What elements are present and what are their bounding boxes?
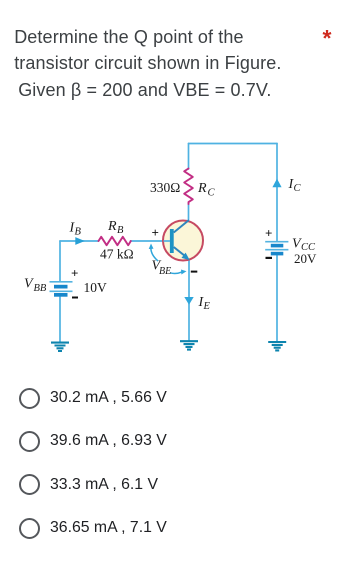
- svg-text:E: E: [203, 301, 211, 312]
- svg-text:R: R: [107, 219, 117, 234]
- transistor emitter line: [174, 247, 185, 256]
- svg-text:330Ω: 330Ω: [150, 180, 180, 195]
- wire emitter down: [188, 261, 190, 342]
- svg-text:10V: 10V: [84, 280, 108, 295]
- minus sign VBB: [72, 297, 78, 299]
- transistor collector line: [174, 220, 189, 233]
- svg-text:B: B: [75, 227, 82, 238]
- minus sign at emitter: [191, 271, 198, 273]
- VBE pointer arrow to base: [151, 247, 158, 262]
- transistor Q1 circle: [163, 221, 203, 261]
- svg-text:C: C: [294, 183, 302, 194]
- label IC: [288, 177, 302, 194]
- arrow IB: [75, 237, 85, 245]
- svg-text:C: C: [208, 188, 216, 199]
- label VBE: [152, 259, 172, 278]
- resistor RC zigzag: [184, 169, 193, 205]
- svg-text:+: +: [265, 226, 272, 241]
- svg-text:+: +: [71, 266, 78, 281]
- svg-text:BB: BB: [34, 283, 47, 294]
- svg-text:B: B: [117, 225, 124, 236]
- resistor RB zigzag: [99, 237, 131, 245]
- wire RC top to corner: [188, 144, 190, 170]
- required asterisk: [323, 25, 332, 52]
- ground (emitter): [180, 341, 198, 349]
- wire VCC bottom to ground: [276, 256, 278, 343]
- transistor emitter arrowhead: [182, 253, 190, 261]
- ground (VCC): [268, 342, 286, 350]
- svg-text:+: +: [152, 225, 159, 240]
- option text 4: [50, 519, 167, 537]
- wire VBB bottom to ground: [59, 297, 61, 343]
- label IB: [69, 221, 82, 238]
- wire top horizontal: [189, 143, 278, 145]
- question text: [14, 24, 281, 103]
- option radio 1: [19, 388, 40, 409]
- ground (VBB): [51, 343, 69, 351]
- svg-text:47 kΩ: 47 kΩ: [100, 247, 134, 262]
- option radio 4: [19, 518, 40, 539]
- minus sign VCC: [266, 257, 273, 259]
- wire VBB riser: [59, 241, 61, 282]
- arrow IC: [272, 179, 281, 188]
- option radio 3: [19, 474, 40, 495]
- svg-text:20V: 20V: [294, 251, 317, 266]
- label IE: [198, 295, 211, 312]
- battery VCC: [265, 242, 288, 256]
- transistor base bar: [170, 229, 174, 253]
- wire RB to transistor base: [131, 240, 172, 242]
- wire collector to RC: [188, 204, 190, 220]
- label RB: [107, 219, 124, 236]
- option radio 2: [19, 431, 40, 452]
- wire base horizontal left segment: [60, 240, 99, 242]
- label RC: [197, 181, 216, 199]
- option text 1: [50, 389, 167, 407]
- option text 3: [50, 476, 158, 494]
- wire VCC branch upper: [276, 144, 278, 242]
- option text 2: [50, 432, 167, 450]
- VBE pointer arrow to emitter: [170, 272, 183, 274]
- svg-text:V: V: [24, 277, 34, 292]
- svg-text:BE: BE: [159, 266, 171, 277]
- battery VBB: [50, 282, 73, 297]
- label VBB: [24, 277, 47, 295]
- svg-text:R: R: [197, 181, 207, 196]
- label VCC: [292, 237, 316, 253]
- wire base inside circle: [164, 240, 171, 242]
- arrow IE: [184, 297, 193, 305]
